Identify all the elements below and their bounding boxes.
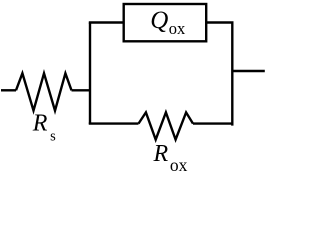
svg-text:R: R [32,111,48,137]
wire: Qox to node B [205,21,233,23]
svg-text:ox: ox [169,19,186,38]
wire: output lead [232,70,264,72]
svg-text:R: R [153,141,169,167]
wire: bottom branch left segment [89,122,139,124]
wire: bottom branch right segment [193,122,234,124]
wire: node A to Qox [89,21,123,23]
node A: left junction vertical [89,23,91,125]
value label Rox ("R" with subscript "ox") [153,141,188,175]
resistor Rox [139,112,194,139]
svg-text:s: s [50,129,56,145]
value label Rs ("R" with subscript "s") [32,111,56,145]
value label Qox ("Q" with subscript "ox") [150,7,186,38]
wire: Rs to node A [72,89,91,91]
resistor Rs [16,73,72,110]
node B: right junction vertical [231,23,233,126]
svg-text:Q: Q [150,7,168,34]
svg-text:ox: ox [170,155,188,172]
CPE Qox (constant phase element box) [124,4,207,41]
wire: input lead [1,89,16,91]
